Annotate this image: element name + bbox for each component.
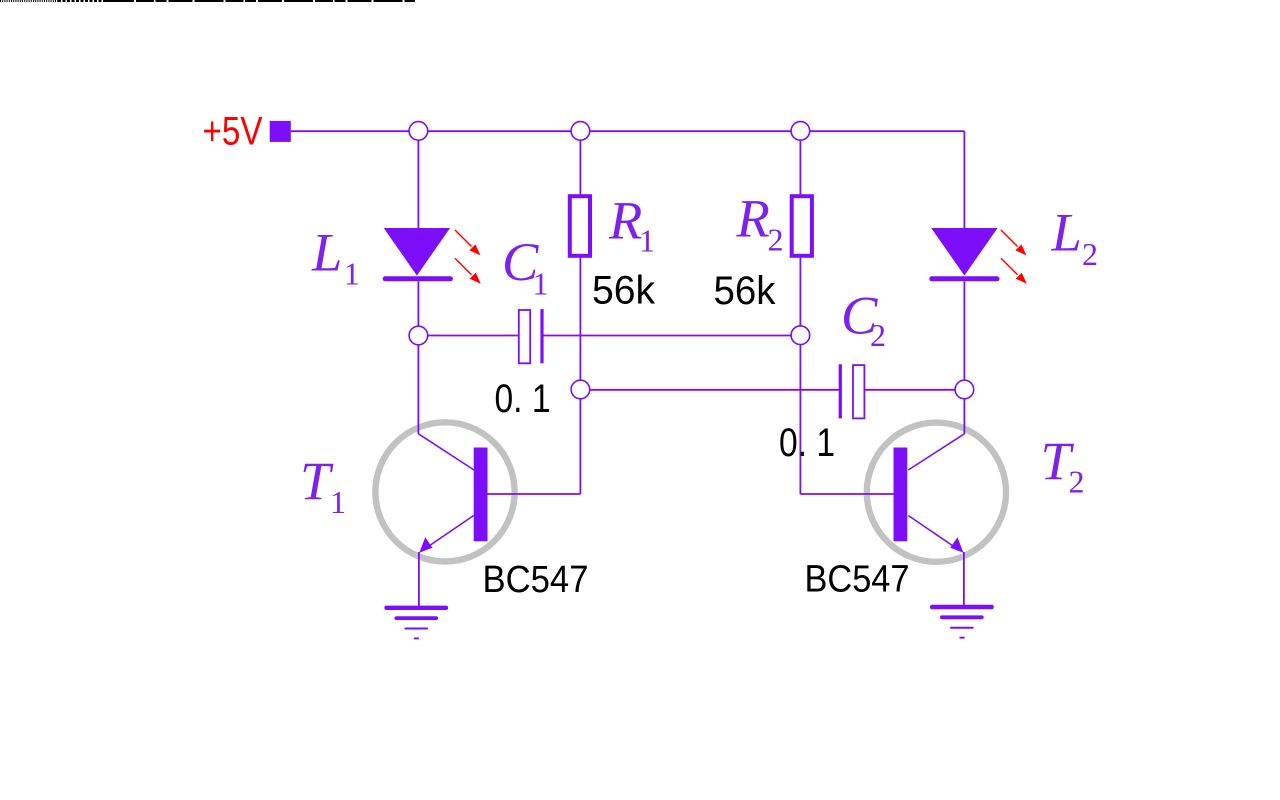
LED L2 light arrow 1: [1001, 230, 1027, 255]
wire top rail +5V to corner: [291, 130, 965, 132]
svg-text:1: 1: [639, 222, 655, 258]
svg-text:+5V: +5V: [203, 110, 263, 154]
+5V terminal square: [270, 121, 291, 142]
resistor R2 body: [792, 196, 812, 256]
svg-text:1: 1: [533, 266, 549, 302]
wire T1 emitter down to ground: [418, 552, 420, 606]
wire T2 base horizontal: [800, 493, 893, 495]
wire node A to C1 left plate: [418, 335, 518, 337]
wire node1 down to LED L1: [417, 131, 419, 228]
capacitor C1 left plate: [519, 310, 530, 363]
transistor T1 emitter arrowhead: [419, 537, 432, 553]
LED L1 light arrow 1: [455, 230, 481, 255]
wire T2 emitter down to ground: [963, 552, 965, 605]
svg-text:1: 1: [330, 484, 346, 520]
svg-text:BC547: BC547: [805, 559, 910, 601]
LED L1 cathode bar: [383, 276, 453, 281]
LED L2 triangle: [931, 228, 997, 276]
node N2 on rail above R1: [571, 122, 590, 141]
transistor T1 collector diagonal: [418, 434, 474, 470]
svg-text:2: 2: [768, 222, 784, 258]
wire C2 right plate to node D: [865, 389, 965, 391]
svg-text:L: L: [311, 222, 342, 283]
svg-text:0. 1: 0. 1: [495, 377, 551, 421]
transistor T2 body circle: [867, 423, 1006, 562]
LED L2 cathode bar: [929, 276, 999, 281]
LED L2 light arrow 2: [1001, 258, 1027, 284]
wire LED L1 cathode down to T1 collector: [417, 282, 419, 435]
svg-text:T: T: [300, 450, 334, 511]
wire R2 bottom down to T2 base row: [799, 257, 801, 494]
resistor R1 body: [570, 196, 590, 256]
svg-text:56k: 56k: [714, 269, 777, 313]
svg-text:R: R: [608, 189, 642, 250]
transistor T1 emitter diagonal: [426, 516, 474, 549]
node N1 on rail above L1: [409, 122, 428, 141]
wire LED L2 cathode down to T2 collector: [963, 282, 965, 435]
svg-text:56k: 56k: [592, 269, 656, 313]
wire C1 right plate to node B: [544, 335, 801, 337]
transistor T2 collector diagonal: [908, 434, 964, 470]
ground symbol T1: [384, 606, 448, 640]
svg-text:R: R: [736, 188, 770, 249]
LED L1 triangle: [384, 228, 450, 276]
cropped text line at top: [0, 0, 415, 2]
LED L1 light arrow 2: [455, 258, 481, 284]
node B at R2 bottom junction: [791, 326, 810, 345]
ground symbol T2: [930, 605, 994, 639]
wire L2 feed corner down: [963, 131, 965, 228]
svg-text:BC547: BC547: [483, 559, 589, 601]
svg-text:L: L: [1051, 202, 1082, 263]
wire node C to C2 left plate: [580, 389, 839, 391]
wire T1 base horizontal: [488, 493, 581, 495]
transistor T1 body circle: [375, 422, 514, 561]
transistor T1 base bar: [474, 448, 488, 542]
node N3 on rail above R2: [791, 122, 810, 141]
node A at L1 cathode junction: [409, 326, 428, 345]
capacitor C1 right plate: [540, 309, 543, 363]
wire node2 down to R1: [579, 131, 581, 195]
svg-text:0. 1: 0. 1: [779, 421, 835, 465]
capacitor C2 left plate: [839, 364, 842, 418]
svg-text:2: 2: [870, 317, 886, 353]
node D at L2 cathode junction: [955, 380, 974, 399]
wire R1 bottom down to T1 base row: [579, 257, 581, 494]
svg-text:1: 1: [344, 256, 360, 292]
wire node3 down to R2: [799, 131, 801, 195]
capacitor C2 right plate: [853, 365, 864, 418]
transistor T2 emitter diagonal: [908, 516, 956, 549]
svg-text:2: 2: [1082, 236, 1098, 272]
transistor T2 base bar: [894, 448, 908, 542]
transistor T2 emitter arrowhead: [950, 537, 963, 553]
node C at R1 bottom junction: [571, 380, 590, 399]
svg-text:2: 2: [1069, 463, 1085, 499]
